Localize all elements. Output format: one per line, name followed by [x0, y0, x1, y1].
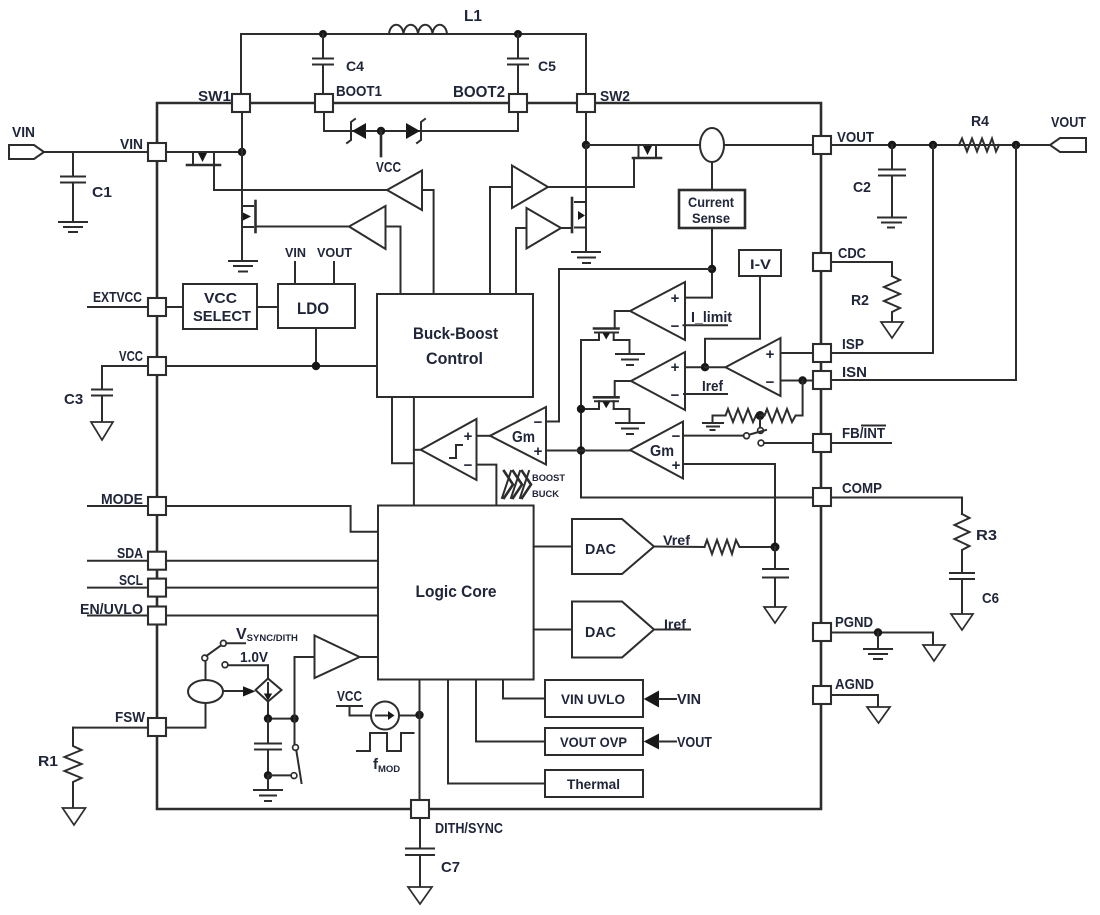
- wire AGND ground: [831, 695, 878, 707]
- node junction SW1 column at M1 drain: [238, 148, 246, 156]
- svg-text:Iref: Iref: [664, 616, 686, 632]
- node junction cap bottom: [264, 771, 272, 779]
- switch FB select: [744, 419, 813, 446]
- svg-text:+: +: [534, 443, 543, 460]
- svg-text:1.0V: 1.0V: [240, 649, 268, 666]
- svg-text:SDA: SDA: [117, 545, 143, 562]
- wire cap bottom to switch throw: [268, 773, 297, 779]
- pin BOOT2: [453, 84, 527, 112]
- svg-text:I-V: I-V: [750, 256, 772, 272]
- svg-text:FSW: FSW: [115, 709, 146, 726]
- square wave fMOD symbol: [357, 733, 414, 775]
- transistor M4 (boost high-side FET): [586, 145, 700, 187]
- svg-text:Control: Control: [426, 349, 483, 368]
- op-amp Iref amplifier: [615, 352, 727, 410]
- svg-text:VCC: VCC: [337, 688, 362, 705]
- wire VOUT rail to output tag: [831, 144, 1050, 146]
- svg-text:VCC: VCC: [204, 290, 237, 307]
- wire SCL to Logic Core: [166, 587, 378, 589]
- svg-text:−: −: [671, 387, 680, 404]
- gate driver U2 (buck low-side): [349, 206, 401, 294]
- dependent current source diamond: [256, 665, 282, 701]
- svg-text:BOOT2: BOOT2: [453, 84, 505, 101]
- VIN input tag: [9, 124, 44, 159]
- svg-text:VCC: VCC: [376, 159, 401, 176]
- LDO block: [257, 284, 355, 328]
- wire Current Sense to node: [711, 228, 713, 298]
- Buck-Boost Control block: [377, 294, 533, 397]
- node junction on top rail at C5: [514, 30, 522, 38]
- pin SW2: [577, 88, 630, 112]
- node junction VCC stub on pump rail: [377, 127, 385, 135]
- pin MODE: [88, 491, 166, 515]
- svg-text:C5: C5: [538, 58, 556, 74]
- svg-text:C2: C2: [853, 179, 871, 196]
- wire MODE to Logic Core: [166, 506, 378, 532]
- pin SW1: [198, 88, 250, 112]
- IC boundary left/top/right/bottom outline: [157, 103, 821, 809]
- wire VIN tag to VIN pin: [44, 151, 148, 153]
- ground (chassis) at AGND: [867, 707, 890, 723]
- VCC supply stub for fMOD source: [337, 688, 371, 716]
- svg-text:VIN: VIN: [12, 124, 35, 141]
- VCC SELECT block: [166, 284, 257, 329]
- arrow oscillator to diamond: [223, 686, 256, 696]
- node junction LDO output on VCC rail: [312, 362, 320, 370]
- svg-text:−: −: [464, 457, 473, 474]
- svg-text:+: +: [672, 457, 681, 474]
- svg-text:PGND: PGND: [835, 614, 873, 631]
- pin ISN: [813, 364, 867, 389]
- svg-text:C1: C1: [92, 184, 112, 201]
- capacitor C7: [406, 818, 460, 887]
- svg-text:EN/UVLO: EN/UVLO: [80, 601, 143, 618]
- ground (chassis) below C6: [951, 614, 973, 630]
- current source fMOD: [371, 702, 420, 730]
- LDO VOUT input stub: [317, 245, 352, 284]
- svg-text:AGND: AGND: [835, 676, 874, 693]
- pin BOOT1: [315, 83, 382, 112]
- pin PGND: [813, 614, 873, 641]
- svg-text:−: −: [671, 318, 680, 335]
- svg-text:C4: C4: [346, 58, 364, 74]
- svg-text:SELECT: SELECT: [193, 308, 251, 325]
- wire Logic Core to DITH/SYNC pin: [419, 680, 421, 801]
- svg-text:VOUT OVP: VOUT OVP: [560, 734, 627, 750]
- gate driver U3 (boost high-side): [490, 166, 634, 295]
- transistor M5 (I_limit clamp FET): [581, 329, 630, 354]
- node junction PGND earth: [874, 628, 882, 636]
- node junction below Current Sense: [708, 265, 716, 273]
- ground (chassis) below C3: [91, 422, 113, 440]
- ground (chassis) below Vref cap: [764, 607, 786, 623]
- wire SW1 top rail to SW2: [241, 34, 586, 103]
- sawtooth BOOST/BUCK ramp symbol: [502, 471, 565, 500]
- wire FSW to R1: [73, 727, 148, 729]
- node junction Iref plus input: [701, 363, 709, 371]
- ground (earth) below C1: [59, 222, 87, 232]
- current sense probe ellipse: [700, 128, 813, 190]
- ground (chassis) below R2: [881, 322, 903, 338]
- node junction clamp/M6: [577, 405, 585, 413]
- node junction ISP sense: [929, 141, 937, 149]
- transistor M2 (buck low-side FET): [242, 152, 349, 235]
- DAC Iref converter: [534, 602, 654, 658]
- svg-text:VOUT: VOUT: [317, 245, 352, 260]
- svg-text:−: −: [534, 414, 543, 431]
- transistor M6 (Iref clamp FET): [581, 397, 630, 422]
- svg-text:ISN: ISN: [842, 364, 867, 381]
- svg-text:BOOT1: BOOT1: [336, 83, 382, 100]
- ground (earth) below M2: [229, 261, 257, 272]
- wire SDA to Logic Core: [166, 560, 378, 562]
- svg-text:VOUT: VOUT: [1051, 114, 1086, 131]
- wire diamond output node: [268, 702, 295, 719]
- svg-text:VIN: VIN: [677, 691, 701, 708]
- resistor R4: [959, 113, 999, 152]
- svg-text:ISP: ISP: [842, 336, 864, 353]
- ground (chassis) below R1: [63, 808, 86, 825]
- svg-text:COMP: COMP: [842, 480, 882, 497]
- capacitor C6: [950, 573, 999, 614]
- ground (earth) below M6: [616, 423, 644, 434]
- svg-text:C6: C6: [982, 590, 999, 607]
- op-amp Gm error amplifier right: [581, 422, 775, 548]
- node junction ISN input: [798, 376, 806, 384]
- pin SCL: [88, 572, 166, 597]
- node junction Vref RC: [771, 543, 780, 552]
- wire SW2 pin down to node: [585, 112, 587, 145]
- pin FB/INT: [813, 425, 891, 452]
- wire PGND grounds: [831, 633, 933, 646]
- svg-text:SW2: SW2: [600, 88, 630, 105]
- wire M2 source to ground: [241, 235, 243, 260]
- op-amp current sense amplifier (ISP/ISN): [705, 338, 813, 396]
- svg-text:VOUT: VOUT: [677, 734, 712, 751]
- ground (earth) below dither cap: [254, 775, 282, 801]
- pin COMP: [813, 480, 882, 506]
- svg-text:VIN UVLO: VIN UVLO: [561, 691, 625, 707]
- arrow VIN into UVLO: [644, 691, 701, 709]
- svg-text:−: −: [766, 374, 775, 391]
- svg-text:EXTVCC: EXTVCC: [93, 289, 142, 306]
- transistor M3 (boost low-side FET): [561, 145, 586, 235]
- svg-text:R3: R3: [976, 527, 997, 544]
- pin CDC: [813, 245, 866, 271]
- svg-text:Vref: Vref: [663, 532, 690, 548]
- ground (earth) below C2: [878, 218, 906, 228]
- LDO VIN input stub: [285, 245, 306, 284]
- svg-text:SW1: SW1: [198, 88, 231, 105]
- capacitor C1: [61, 152, 112, 221]
- node junction C2 branch: [888, 141, 896, 149]
- resistor R1: [38, 728, 82, 808]
- svg-text:DAC: DAC: [585, 624, 616, 641]
- svg-text:DITH/SYNC: DITH/SYNC: [435, 820, 503, 837]
- pin EXTVCC: [88, 289, 166, 316]
- node junction diamond output: [264, 714, 272, 722]
- VOUT OVP block: [476, 680, 643, 756]
- svg-text:VOUT: VOUT: [837, 129, 874, 146]
- node junction divider tap: [756, 411, 765, 420]
- I-V converter block: [739, 250, 781, 276]
- arrow VOUT into OVP: [644, 734, 712, 752]
- svg-text:MODE: MODE: [101, 491, 143, 508]
- pin EN/UVLO: [80, 601, 166, 625]
- capacitor C4: [313, 34, 364, 95]
- svg-text:Buck-Boost: Buck-Boost: [413, 324, 498, 343]
- capacitor dither ramp: [255, 719, 281, 776]
- ground (earth) below M5: [616, 354, 644, 365]
- wire COMP to R3: [831, 498, 962, 515]
- wire CDC to R2: [831, 262, 892, 276]
- svg-text:−: −: [672, 428, 681, 445]
- svg-text:SCL: SCL: [119, 572, 143, 589]
- resistor R2: [851, 276, 900, 322]
- capacitor C2: [853, 145, 905, 217]
- label V SYNC/DITH: [236, 626, 298, 644]
- svg-text:Thermal: Thermal: [567, 776, 620, 792]
- capacitor Vref filter: [763, 547, 788, 607]
- svg-text:Logic Core: Logic Core: [416, 582, 497, 601]
- resistor Vref filter: [705, 540, 776, 554]
- capacitor C5: [508, 34, 556, 95]
- label 1.0V: [240, 649, 268, 666]
- wire FSW to oscillator: [166, 703, 206, 728]
- switch SYNC/DITH select: [202, 640, 268, 667]
- wire SW1 pin down to node: [241, 112, 243, 152]
- svg-text:R2: R2: [851, 292, 869, 309]
- wire VCC rail to Buck-Boost Control: [102, 328, 377, 366]
- node junction Gm outputs: [577, 446, 585, 454]
- wire BOOT1 to BOOT2 charge-pump rail: [324, 112, 518, 131]
- VIN UVLO block: [503, 680, 643, 718]
- gate driver U1 (buck high-side): [214, 171, 434, 295]
- svg-text:+: +: [464, 428, 473, 445]
- wire Vref output with label: [654, 532, 705, 548]
- op-amp PWM comparator with hysteresis: [414, 419, 497, 506]
- ground (chassis) at PGND: [923, 645, 945, 661]
- wire M3 source to ground: [585, 235, 587, 251]
- wire ISP to VOUT rail: [831, 145, 933, 353]
- ground (earth) at feedback divider: [703, 416, 723, 431]
- svg-text:I_limit: I_limit: [691, 309, 732, 326]
- VCC stub below diode pump: [376, 131, 401, 176]
- Current Sense block: [679, 190, 745, 228]
- node junction SW2 column: [582, 141, 590, 149]
- ground (earth) below M3: [572, 252, 600, 263]
- inductor L1: [389, 8, 482, 34]
- op-amp I_limit comparator: [615, 282, 732, 340]
- svg-text:BUCK: BUCK: [532, 489, 559, 500]
- svg-text:Current: Current: [688, 194, 734, 210]
- svg-text:R4: R4: [971, 113, 990, 130]
- Thermal block: [448, 680, 643, 798]
- node junction dither switch top: [290, 714, 298, 722]
- ground (chassis) below C7: [408, 887, 432, 904]
- pin VIN: [120, 136, 166, 161]
- resistor feedback divider right: [760, 381, 803, 423]
- ground (earth) at PGND: [864, 633, 892, 660]
- VOUT output tag: [1050, 114, 1086, 152]
- pin VOUT: [813, 129, 874, 154]
- pin ISP: [813, 336, 864, 362]
- svg-text:CDC: CDC: [838, 245, 866, 262]
- wire EN/UVLO to Logic Core: [166, 615, 378, 617]
- node junction on top rail at C4: [319, 30, 327, 38]
- wire I-V output to Iref node: [705, 276, 760, 367]
- svg-text:+: +: [766, 346, 775, 363]
- svg-text:VIN: VIN: [285, 245, 306, 260]
- node junction fMOD output: [415, 711, 423, 719]
- wire clamp node vertical to COMP: [581, 340, 821, 498]
- schottky diode D1 (to BOOT1): [324, 119, 366, 143]
- svg-text:R1: R1: [38, 753, 58, 770]
- DAC Vref converter: [534, 519, 654, 574]
- svg-text:Sense: Sense: [692, 210, 730, 226]
- svg-text:VIN: VIN: [120, 136, 143, 153]
- svg-text:BOOST: BOOST: [532, 473, 565, 484]
- wire Iref output stub with label: [654, 616, 690, 632]
- capacitor C3: [64, 366, 112, 422]
- wire node to Gm error amp input: [546, 269, 712, 422]
- transistor M1 (input disconnect FET): [166, 152, 242, 190]
- pin VCC: [119, 348, 166, 375]
- wire ISN to output tag node: [831, 145, 1016, 380]
- gate driver U4 (boost low-side): [516, 208, 561, 294]
- node junction ISN sense: [1012, 141, 1020, 149]
- Logic Core block: [378, 506, 534, 680]
- svg-text:VCC: VCC: [119, 348, 143, 365]
- resistor feedback divider left: [713, 409, 761, 422]
- svg-text:DAC: DAC: [585, 541, 616, 558]
- oscillator ellipse: [188, 661, 223, 704]
- svg-text:L1: L1: [464, 8, 482, 25]
- svg-text:+: +: [671, 290, 680, 307]
- pin DITH/SYNC: [411, 800, 503, 837]
- amplifier sync buffer: [295, 636, 379, 719]
- svg-text:Iref: Iref: [702, 378, 724, 395]
- switch dither discharge: [293, 719, 302, 783]
- svg-text:FB/INT: FB/INT: [842, 425, 885, 442]
- svg-text:C7: C7: [441, 859, 460, 876]
- svg-text:+: +: [671, 359, 680, 376]
- pin SDA: [88, 545, 166, 570]
- svg-text:LDO: LDO: [297, 299, 329, 318]
- schottky diode D2 (to BOOT2): [366, 119, 518, 143]
- svg-text:Gm: Gm: [512, 429, 535, 446]
- resistor R3: [955, 514, 998, 571]
- op-amp Gm error amplifier left: [477, 407, 582, 465]
- svg-text:C3: C3: [64, 391, 83, 408]
- pin FSW: [115, 709, 166, 736]
- svg-text:Gm: Gm: [650, 443, 674, 460]
- pin AGND: [813, 676, 874, 704]
- wire Buck-Boost Control bottom pins: [392, 397, 414, 506]
